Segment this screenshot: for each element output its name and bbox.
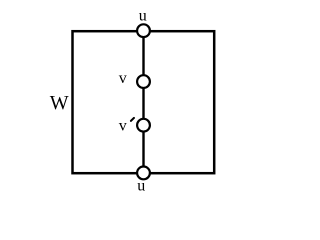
label prime mark of v' xyxy=(131,118,134,121)
svg-text:W: W xyxy=(50,92,69,114)
node v xyxy=(137,75,150,88)
svg-text:v: v xyxy=(119,70,127,87)
wire: outer cycle rectangle of W xyxy=(73,31,215,173)
node u (top) xyxy=(137,24,150,37)
svg-text:u: u xyxy=(137,178,145,195)
svg-text:v: v xyxy=(119,117,127,134)
node u (bottom) xyxy=(137,167,150,180)
svg-text:u: u xyxy=(139,7,147,24)
node v' xyxy=(137,119,150,132)
wire: vertical path u-v-v'-u xyxy=(142,31,144,173)
